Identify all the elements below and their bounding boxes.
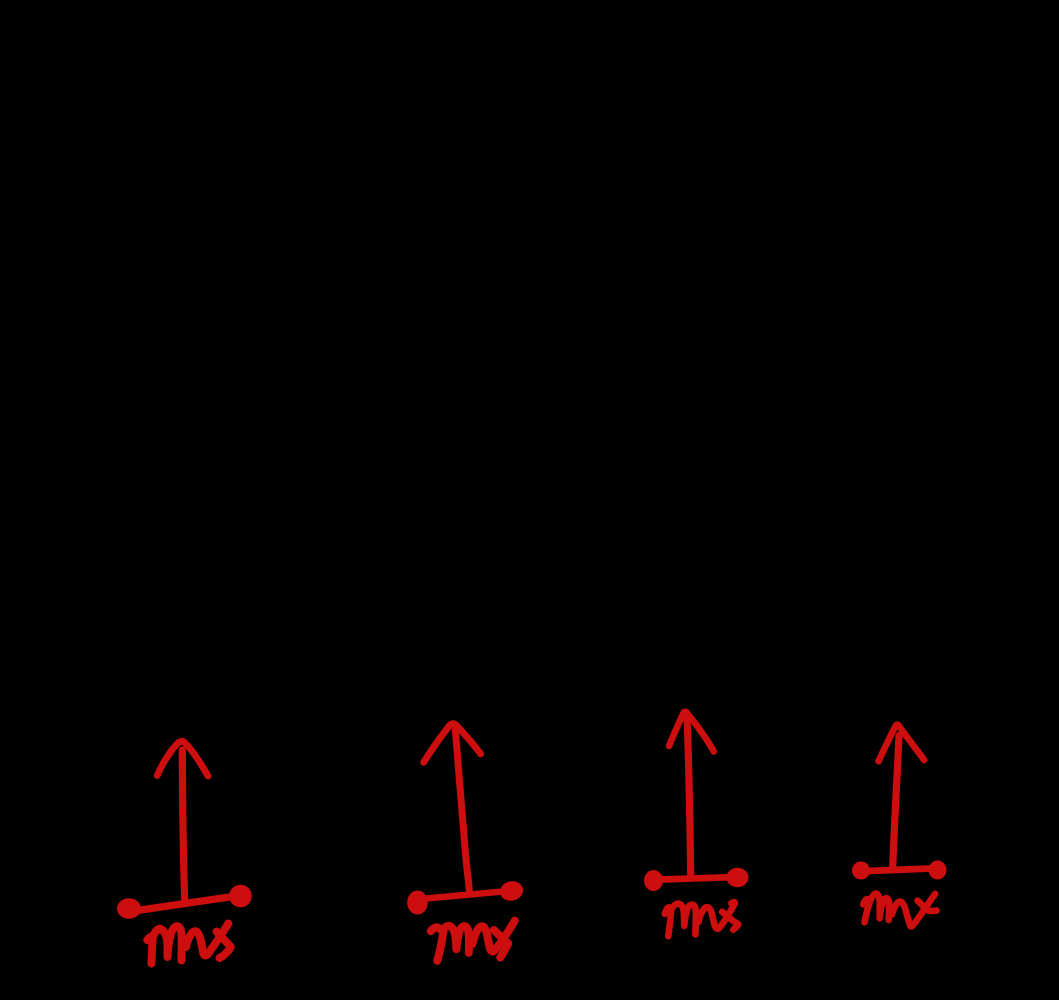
arrow 3 left end dot bbox=[644, 870, 663, 891]
arrow 4 left end dot bbox=[852, 862, 870, 880]
label max 1 bbox=[147, 924, 231, 964]
arrow 2 right end dot bbox=[498, 879, 525, 903]
arrow 2 shaft bbox=[455, 730, 469, 894]
arrow 2 base line bbox=[426, 892, 503, 899]
arrow 1 base line bbox=[137, 897, 233, 911]
arrow 4 right end dot bbox=[929, 861, 947, 880]
arrow 3 right end dot bbox=[727, 868, 749, 888]
arrow 1 shaft bbox=[182, 750, 185, 904]
arrow 2 left end dot bbox=[407, 891, 428, 915]
arrow 3 head bbox=[669, 712, 714, 752]
arrow 4 shaft bbox=[893, 736, 899, 869]
arrow 3 base line bbox=[661, 877, 728, 879]
arrow 1 left end dot bbox=[117, 898, 141, 919]
arrow 1 head bbox=[157, 741, 208, 776]
arrow 4 head bbox=[879, 725, 925, 762]
label max 4 bbox=[863, 894, 936, 927]
arrow 3 shaft bbox=[687, 715, 691, 877]
arrow 2 head bbox=[424, 724, 481, 763]
arrow 1 right end dot bbox=[229, 885, 252, 908]
label max 3 bbox=[665, 902, 739, 936]
arrow 4 base line bbox=[868, 869, 931, 872]
label max 2 bbox=[431, 921, 515, 961]
